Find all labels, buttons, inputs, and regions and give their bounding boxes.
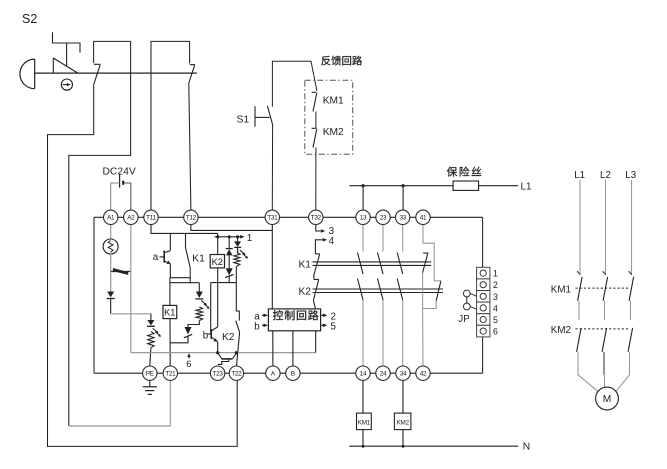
- wire motor left lead: [578, 375, 598, 392]
- wire phase 2 middle: [604, 301, 606, 320]
- wire left blade to control box: [313, 300, 315, 309]
- contact KM2 blade phase 1: [577, 328, 582, 352]
- svg-text:2: 2: [493, 280, 498, 290]
- terminal 23: [376, 210, 390, 224]
- svg-text:5: 5: [331, 321, 337, 332]
- contact fixed-end tick phase 1: [577, 271, 580, 275]
- wire to terminal 34: [402, 300, 404, 366]
- wire to terminal 14: [362, 300, 364, 366]
- S2 contact 1 blade: [94, 65, 101, 85]
- svg-text:A2: A2: [127, 215, 135, 222]
- relay coil K2 box: [210, 255, 224, 268]
- S2 contact 2 seat tick: [190, 64, 195, 66]
- svg-text:33: 33: [399, 215, 406, 222]
- svg-text:K2: K2: [222, 332, 235, 343]
- motor M: [596, 387, 619, 410]
- svg-text:T12: T12: [186, 215, 197, 222]
- node-1 stub rail: [215, 236, 241, 238]
- wire D5 to T21 node: [170, 336, 188, 343]
- junction dot 13 bus: [362, 184, 365, 187]
- label 2 arrow (control box): [321, 314, 325, 316]
- wire T11 riser: [151, 41, 190, 210]
- junction dot Q2 emitter rail: [216, 351, 219, 354]
- wire lamp to diode D1: [110, 254, 112, 272]
- svg-text:A1: A1: [107, 215, 115, 222]
- contact fixed-end tick phase 3: [629, 271, 632, 275]
- wire D2 to gray rail: [110, 299, 112, 314]
- control circuit box: [268, 309, 320, 331]
- S2 contact 1 seat tick: [94, 63, 101, 65]
- wire KM2 coil to N: [402, 430, 404, 447]
- contact KM1 (feedback) seat tick: [312, 91, 317, 93]
- wire terminal 13 down: [362, 225, 364, 252]
- terminal A: [266, 366, 280, 380]
- wire Q2 emitter down: [217, 342, 219, 353]
- battery B1: [120, 174, 124, 187]
- wire A1 internal column: [110, 225, 112, 240]
- module outline left edge: [93, 217, 95, 373]
- wire h4 to Q2 base: [210, 283, 213, 334]
- linkage K2 double line: [313, 288, 444, 290]
- svg-text:6: 6: [186, 359, 191, 369]
- contact K1 blade: [185, 247, 190, 268]
- resistor R3 (LED): [234, 253, 240, 267]
- wire fuse to L1: [479, 185, 519, 187]
- wire motor middle lead: [604, 352, 606, 387]
- linkage K1 double line: [313, 261, 432, 263]
- transistor Q1 (a): [160, 233, 171, 264]
- svg-text:6: 6: [493, 327, 498, 337]
- svg-text:a: a: [153, 252, 159, 263]
- terminal 42: [416, 366, 430, 380]
- terminal T23: [210, 366, 224, 380]
- resistor R1 above PE: [148, 332, 154, 348]
- node wire h2: [170, 282, 199, 284]
- svg-text:K2: K2: [299, 286, 312, 297]
- contactor coil KM1: [357, 413, 372, 430]
- wire K2 coil to Q2 collector: [217, 268, 219, 327]
- junction dot KM2 N: [402, 445, 405, 448]
- terminal 13: [356, 210, 370, 224]
- linkage KM1 dashed: [576, 287, 630, 289]
- svg-text:KM1: KM1: [551, 284, 571, 295]
- wire R1 to PE: [150, 348, 151, 366]
- wire K1 coil to T21: [169, 319, 171, 366]
- terminal PE: [143, 366, 157, 380]
- LED D3 down: [147, 320, 155, 326]
- wire top edge to connector: [482, 217, 484, 267]
- node wire h1: [170, 277, 190, 279]
- svg-text:b: b: [203, 330, 209, 341]
- contact 41 K1 blade: [423, 254, 428, 273]
- zener diode D5: [184, 327, 192, 338]
- svg-text:KM1: KM1: [323, 96, 344, 107]
- terminal 14: [356, 366, 370, 380]
- LED D4 down: [195, 292, 203, 299]
- wire battery to A2: [124, 183, 131, 210]
- contact KM2 blade phase 3: [628, 328, 633, 352]
- svg-text:14: 14: [360, 371, 367, 378]
- wire 34 to KM2 coil: [402, 380, 404, 413]
- label fuse: [447, 167, 457, 177]
- svg-text:N: N: [523, 442, 530, 453]
- svg-text:b: b: [254, 321, 260, 332]
- junction dot 33 bus: [402, 184, 405, 187]
- svg-text:41: 41: [420, 215, 427, 222]
- terminal T21: [163, 366, 177, 380]
- svg-text:4: 4: [329, 236, 335, 247]
- jumper JP: [463, 290, 476, 310]
- S2 actuator triangle: [53, 58, 78, 73]
- contact 41 K1 seat tick: [423, 252, 428, 254]
- svg-text:L2: L2: [600, 170, 611, 181]
- wire h2 to LED D4: [198, 283, 200, 292]
- wire to terminal 24: [382, 300, 384, 366]
- wire KM2 feedback to T32: [315, 148, 317, 211]
- wire S1 to T31: [271, 125, 273, 210]
- module outline top edge: [94, 216, 483, 218]
- lamp/varistor circle: [103, 239, 118, 254]
- wire bus to terminal 33: [402, 186, 404, 210]
- svg-text:S1: S1: [237, 115, 250, 126]
- wire K1 blade bottom: [189, 268, 191, 284]
- wire S2 contact 1 to T22: [48, 84, 238, 446]
- wire motor right lead: [616, 375, 630, 392]
- terminal T32: [309, 210, 323, 224]
- svg-text:KM2: KM2: [551, 325, 571, 336]
- svg-text:T23: T23: [213, 371, 224, 378]
- junction dot T22 rail: [235, 351, 238, 354]
- fuse F1: [453, 181, 479, 190]
- wire terminal 23 down: [382, 225, 384, 252]
- rail from T12 to T31 column: [191, 225, 272, 231]
- wire control box to A: [272, 331, 274, 366]
- label 5 arrow (control box): [321, 324, 325, 326]
- relay coil K1 box: [163, 305, 177, 318]
- feedback dashed box: [305, 80, 353, 154]
- wire phase 1 upper: [579, 180, 581, 275]
- S2 actuator linkage line: [35, 72, 197, 74]
- svg-text:T31: T31: [267, 215, 278, 222]
- pushbutton S2 mushroom head: [20, 59, 35, 89]
- terminal T11: [144, 210, 158, 224]
- S2 turn-to-release symbol: [61, 79, 72, 90]
- gray common rail: [131, 352, 316, 354]
- contact blade K2 row col 33: [397, 279, 403, 301]
- wire K2 blade to T22: [237, 332, 240, 365]
- wire 41 blade bottom: [422, 273, 424, 309]
- contact K2 (lower) wire: [236, 283, 239, 321]
- diac D1 horizontal: [111, 268, 131, 275]
- svg-text:L3: L3: [625, 170, 636, 181]
- svg-text:T22: T22: [231, 371, 242, 378]
- wire R3 down to h4: [235, 266, 237, 283]
- svg-text:KM2: KM2: [323, 127, 344, 138]
- terminal 41: [416, 210, 430, 224]
- contact KM1 (feedback) blade: [313, 93, 317, 112]
- module outline bottom edge: [94, 372, 483, 374]
- label 4 arrow: [315, 240, 322, 254]
- contact fixed-end tick phase 2: [603, 271, 606, 275]
- svg-text:KM2: KM2: [396, 419, 409, 426]
- arrow node 6: [187, 353, 190, 359]
- contact blade K1 row col 13: [358, 253, 364, 275]
- svg-text:23: 23: [380, 215, 387, 222]
- terminal T12: [184, 210, 198, 224]
- svg-text:K2: K2: [212, 257, 223, 267]
- svg-text:1: 1: [493, 269, 498, 279]
- svg-text:L1: L1: [574, 170, 585, 181]
- ground symbol: [143, 381, 157, 395]
- svg-text:24: 24: [380, 371, 387, 378]
- S1 blade: [267, 106, 272, 126]
- switch S1 actuator: [255, 106, 270, 127]
- svg-text:B: B: [291, 371, 295, 378]
- wire control box to B: [292, 331, 294, 366]
- contact K1 (output block left) blade: [314, 254, 320, 275]
- gray rail to PE chain: [111, 313, 151, 315]
- contact K2 (output block left) blade: [313, 280, 319, 301]
- wire battery to A1: [111, 183, 120, 210]
- wire 41 second blade down: [423, 301, 437, 309]
- svg-text:5: 5: [493, 315, 498, 325]
- wire L1 bus: [350, 185, 454, 187]
- terminal B: [286, 366, 300, 380]
- wire Q1 emitter down: [169, 264, 171, 278]
- svg-text:S2: S2: [22, 12, 37, 26]
- contact KM1 blade phase 1: [578, 277, 583, 301]
- connector block JP: [477, 267, 498, 337]
- svg-text:34: 34: [400, 371, 407, 378]
- wire terminal 33 down: [402, 225, 404, 252]
- S2 actuator stem: [66, 43, 68, 67]
- contact KM1 blade phase 2: [603, 277, 608, 301]
- contact KM1 blade phase 3: [629, 277, 634, 301]
- label feedback loop: [321, 56, 330, 66]
- LED R3 arrows: [240, 250, 248, 259]
- LED D4 arrows: [201, 300, 209, 309]
- svg-text:PE: PE: [146, 371, 154, 378]
- wire phase 3 lower: [629, 352, 631, 375]
- wire R2 to zener jog: [188, 321, 199, 327]
- wire rail to K1 contact: [185, 233, 187, 246]
- svg-text:T21: T21: [165, 371, 176, 378]
- wire 14 to KM1 coil: [362, 380, 364, 413]
- terminal 33: [396, 210, 410, 224]
- contact KM2 blade phase 2: [602, 328, 607, 352]
- svg-text:KM1: KM1: [358, 419, 371, 426]
- wire between KM1 and KM2 feedback contacts: [315, 112, 317, 129]
- svg-text:3: 3: [493, 292, 498, 302]
- svg-text:JP: JP: [458, 314, 470, 325]
- contact blade K1 row col 33: [397, 253, 403, 275]
- wire between left blades: [313, 275, 315, 280]
- rail from T11: [151, 225, 218, 234]
- wire T11 rail to stub: [217, 233, 219, 254]
- resistor R2: [196, 307, 202, 321]
- wire KM1 coil to N: [362, 430, 364, 447]
- S2 actuator bracket: [53, 32, 81, 52]
- terminal T22: [229, 366, 243, 380]
- junction dot KM1 N: [362, 445, 365, 448]
- wire emitter node to K1 coil: [169, 278, 171, 306]
- wire phase 2 upper: [605, 180, 607, 275]
- wire control box to common rail: [315, 331, 317, 353]
- diode D6 up with bar: [226, 237, 233, 268]
- svg-text:K1: K1: [164, 308, 175, 318]
- wire phase 1 middle: [578, 301, 580, 320]
- wire return to T21: [69, 380, 171, 426]
- wire N line: [349, 445, 518, 447]
- linkage KM2 dashed: [576, 328, 630, 330]
- terminal T31: [265, 210, 279, 224]
- terminal 24: [376, 366, 390, 380]
- wire D1 to LED D2: [110, 272, 112, 292]
- zener diode D7: [225, 268, 233, 282]
- wire phase 2 lower: [603, 352, 605, 375]
- svg-text:1: 1: [247, 233, 252, 244]
- arrow node 1: [240, 235, 245, 239]
- wire to terminal 42: [422, 309, 424, 366]
- junction dots stub: [216, 235, 219, 238]
- terminal 34: [396, 366, 410, 380]
- terminal A2: [124, 210, 138, 224]
- contact KM2 (feedback) blade: [313, 129, 317, 148]
- wire connector to bottom edge: [482, 337, 484, 373]
- wire A2 internal column: [130, 225, 132, 353]
- contactor coil KM2: [394, 413, 411, 430]
- label 3 arrow: [316, 225, 321, 232]
- svg-text:13: 13: [360, 215, 367, 222]
- svg-text:T11: T11: [146, 215, 156, 222]
- wire phase 3 upper: [631, 180, 633, 275]
- wire S1 top to feedback box: [272, 61, 317, 106]
- wire phase 1 lower: [577, 352, 579, 375]
- svg-text:K1: K1: [299, 259, 312, 270]
- transistor Q2 (b): [207, 327, 218, 342]
- LED D2 down: [107, 292, 115, 299]
- PE chain wire: [150, 314, 152, 320]
- contact blade K2 row col 13: [358, 279, 364, 301]
- svg-text:42: 42: [420, 371, 427, 378]
- S2 contact 2 blade: [189, 65, 195, 83]
- wire T31 riser to control box: [271, 225, 273, 309]
- contact blade K2 row col 23: [378, 279, 384, 301]
- diode D8 down with bar: [234, 237, 241, 253]
- svg-text:K1: K1: [192, 254, 205, 265]
- transistor Q3: [218, 353, 237, 365]
- contact 41 K2 blade: [436, 281, 441, 301]
- wire bus to terminal 13: [362, 186, 364, 210]
- wire S2 contact 2 to T12: [189, 83, 191, 210]
- svg-text:L1: L1: [521, 182, 532, 193]
- wire phase 3 middle: [630, 301, 632, 320]
- node wire h4: [211, 282, 237, 284]
- LED D3 arrows: [153, 328, 161, 337]
- svg-text:T32: T32: [311, 215, 322, 222]
- wire terminal 41 down: [423, 225, 441, 281]
- contact blade K1 row col 23: [378, 253, 384, 275]
- svg-text:4: 4: [493, 303, 498, 313]
- contact KM2 (feedback) seat tick: [312, 127, 317, 129]
- terminal A1: [104, 210, 118, 224]
- S2 contact 1 upper bracket wire: [69, 41, 131, 426]
- svg-text:M: M: [603, 394, 612, 405]
- contact K2 blade: [236, 321, 240, 333]
